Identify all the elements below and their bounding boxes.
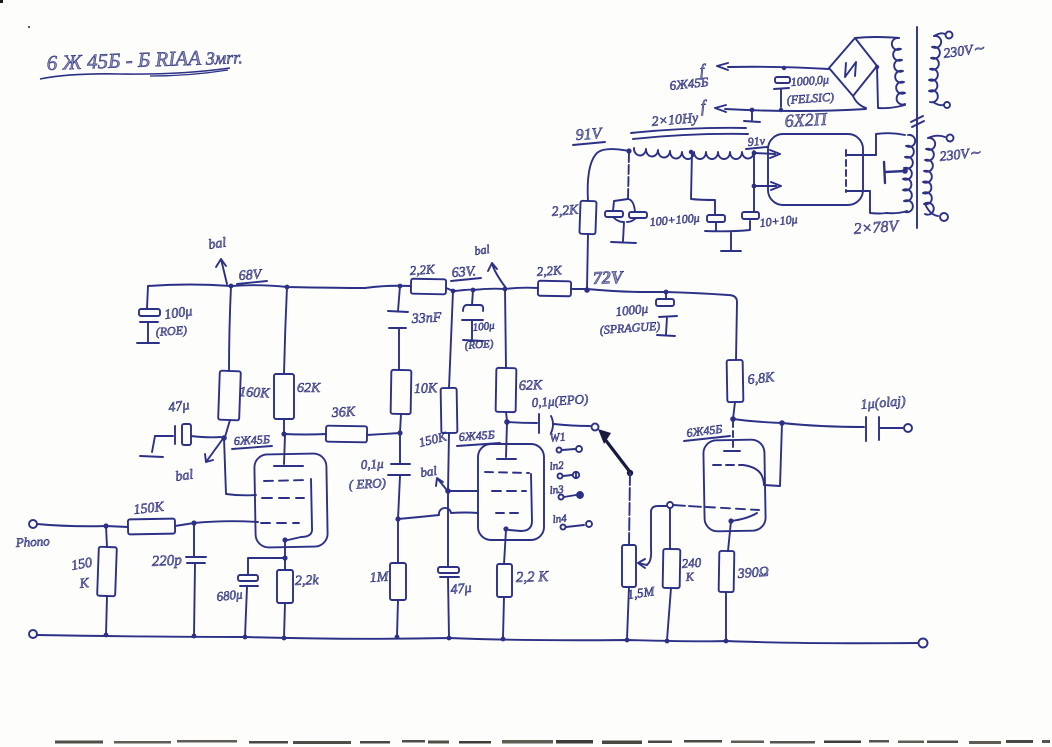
junction dots on top rail [229,284,234,289]
diode inside bridge [845,62,856,77]
svg-text:0,1μ: 0,1μ [360,456,384,472]
svg-text:( ERO): ( ERO) [348,475,386,492]
resistor 2.2K cathode2 [497,564,512,597]
wire 62K to anode2 node [506,412,507,421]
wire bridge right vertex down to winding bottom [877,66,878,107]
svg-text:240: 240 [681,555,702,571]
wire grid node down and into tube [224,438,256,495]
wire vertical feed to 10u cap [753,153,755,212]
svg-text:680μ: 680μ [216,586,244,604]
capacitor 100u ROE second [472,290,473,305]
svg-text:bal: bal [473,242,491,258]
bridge rectifier 6X2P diamond [829,38,877,96]
ground stub on lower f wire [744,111,760,122]
svg-text:47μ: 47μ [450,581,472,598]
wire 150K to ground [106,596,107,635]
wire 3.6K to RIAA node [367,433,400,435]
wire bottom ground rail [37,635,918,643]
svg-text:10K: 10K [414,381,439,397]
wire rail to 62K [284,287,287,374]
svg-text:2,2K: 2,2K [551,203,580,220]
heater winding 2x78V [903,135,915,212]
primary winding bottom 230V [923,138,935,215]
wire 2.2K down to 72V rail [587,234,588,289]
resistor 390R cathode3 [719,551,735,592]
capacitor 1u olaj output [866,417,903,441]
svg-text:2,2k: 2,2k [295,573,320,589]
tube V2 grid1 dash [496,512,524,514]
terminal bottom [933,102,943,105]
wire block to heater winding bottom [870,191,907,214]
capacitor FELSIC lower plate T [774,88,789,107]
tube V1 grid1 dash [261,522,299,524]
tube V1 cathode sleeve [288,479,312,540]
wire grid3 node to tube [673,505,704,507]
HV secondary winding [892,38,905,105]
arrowhead lower f [715,105,726,112]
wire bridge bottom vertex to lower heater wire [853,96,866,108]
svg-text:ln2: ln2 [549,460,565,473]
resistor 2.2k cathode1 [277,570,293,603]
wire lower f line [725,109,866,111]
wire lower tap with arrow into block [754,182,781,190]
wire rail 2.2K to next [446,288,538,291]
choke 2x10Hy core lines [631,128,748,139]
svg-text:220p: 220p [151,552,182,570]
svg-text:91V: 91V [575,125,604,144]
output terminal [904,424,912,432]
svg-text:1M: 1M [369,570,390,586]
arrowhead upper f [717,63,728,70]
resistor 240K [663,549,681,588]
tube V3 plate bar [724,450,740,452]
wire output node down to screen3 [764,423,782,486]
capacitor 10+10u right [742,212,759,219]
svg-text:bal: bal [419,463,438,480]
resistor 150K stage2 [441,388,458,433]
resistor 160K [218,371,241,421]
svg-text:72V: 72V [592,267,625,288]
wire 1.5M to ground [627,587,629,639]
tube V3 screen dash [713,464,743,466]
tube V3 6Zh45B envelope [703,439,766,531]
selector arrow black [604,438,630,472]
tube block internal cathode dashes [845,150,847,192]
tube V1 screen dash [264,480,307,481]
svg-text:2,2K: 2,2K [536,262,563,279]
resistor 1M grid leak [397,519,399,563]
svg-text:390Ω: 390Ω [736,565,769,582]
node 220p tap [191,520,196,525]
wire upper f line from bridge left vertex [728,67,829,69]
resistor 2.2K PSU [579,201,596,235]
wire 150K to bias node [448,433,449,491]
wire wiper bus down [629,473,630,545]
node phono junction [103,523,108,528]
scan corner mark [0,0,3,3]
wire 2.2K to ground [503,597,504,638]
wire grid2 feed to tube2 with hopover [398,508,478,519]
tube V1 6Zh45B envelope [254,453,328,547]
node grid2 feed [395,516,400,521]
resistor 62K anode1 [274,374,294,419]
wire to tube grid [194,521,258,523]
tube V2 cathode node [503,526,508,531]
svg-text:bal: bal [174,468,194,485]
tube V2 screen dash [485,472,529,473]
svg-text:bal: bal [207,236,227,253]
wire cathode node to 680u [248,558,285,575]
junction lower f wire [750,108,755,113]
tube V3 cathode curl [731,513,757,521]
switch wiper terminal [592,424,599,431]
wire block to heater winding top [876,133,905,155]
wire cathode node to 2.2k [284,558,286,570]
node output [779,420,785,426]
junction on upper f wire [782,66,786,70]
node anode1 [281,431,286,436]
wire phono to grid network [37,524,106,526]
node anode2 [504,419,510,425]
capacitor 10000u FELSIC plate box [775,77,790,83]
svg-text:2,2K: 2,2K [409,261,436,278]
core gap marks [911,116,924,127]
choke centre tap wire [691,151,715,215]
tube block internal leads [846,155,876,191]
wire cathode3 down [728,521,731,551]
node bias2 [445,488,451,494]
resistor 150K series grid [128,519,175,535]
wire bridge top vertex to HV winding top [855,37,899,38]
tube V1 cathode node [282,537,287,542]
node 72V [584,287,590,293]
tube V2 plate lead [506,422,507,457]
wire anode3 to output node [733,419,782,423]
wire 390R to ground [725,592,727,641]
svg-text:ln4: ln4 [552,513,568,526]
pot wiper wire to grid node [646,506,666,565]
wire 1M to ground [397,600,398,636]
wire 2.2k to ground rail [284,603,285,638]
potentiometer 1.5M [622,545,636,587]
capacitor 0.1u ERO coupling1 [388,433,410,519]
wire 62K to anode node [283,419,285,433]
svg-text:47μ: 47μ [167,398,190,416]
heater winding centre tap [902,168,908,174]
wire rail right section to corner [587,289,737,360]
wire 91V node down to 2.2K PSU resistor [588,149,629,201]
wire choke out with arrow into block [755,150,780,158]
wire choke node down to caps [628,153,629,199]
wire winding bottom to bridge [878,105,905,108]
svg-text:62K: 62K [519,378,544,394]
svg-text:(ROE): (ROE) [155,323,187,339]
tube V3 screen sleeve to right wall [743,465,764,485]
wire 33nF to 10K [398,329,400,370]
svg-text:6Ж45Б: 6Ж45Б [458,428,495,444]
svg-text:(ROE): (ROE) [464,338,494,352]
choke winding [634,148,754,159]
capacitor 680u [238,575,258,581]
wire 10K to RIAA node [400,414,401,432]
wire rail to 72V node [571,288,587,290]
svg-text:2,2 K: 2,2 K [516,569,550,586]
capacitor 47u plates [155,426,175,444]
svg-text:W1: W1 [549,429,566,445]
wire grid3 node down to 240K [669,508,671,549]
resistor 150K input load vertical [106,526,107,547]
wire anode1 to 3.6K [284,433,326,436]
svg-text:6,8K: 6,8K [747,370,776,388]
scan edge artifact strip [55,741,103,744]
svg-text:160K: 160K [239,385,271,402]
junctions on vertical feed [752,151,757,156]
node anode3 [730,416,736,422]
wire rail to 150K stage2 [449,291,453,388]
bottom rail right terminal [919,639,928,648]
capacitor 1000u SPRAGUE [665,292,667,299]
title underline [40,68,230,79]
phono input terminal [29,520,37,528]
svg-text:Phono: Phono [14,533,50,550]
resistor 2.2K RIAA second [538,281,571,297]
capacitor 100u ROE left [147,286,148,308]
wire rail to 160K [229,286,231,371]
pot wiper arrow [638,559,647,568]
resistor 10K [391,370,412,414]
node RIAA [397,430,402,435]
svg-text:36K: 36K [330,405,356,421]
tube V1 plate lead [284,435,285,464]
svg-text:100μ: 100μ [472,320,496,334]
capacitor 100+100u pair [613,199,635,212]
capacitor 33nF [388,286,408,328]
capacitor 47u input bias left stub [140,436,163,457]
terminal bottom [925,204,938,216]
svg-text:62K: 62K [297,381,321,396]
wire 6.8K to anode3 node [733,402,735,419]
svg-text:1000,0μ: 1000,0μ [790,72,829,89]
svg-text:6X2Π: 6X2Π [784,109,828,131]
transformer core [916,27,918,228]
resistor 2.2K RIAA first [411,279,446,295]
capacitor 220p [186,523,206,636]
tube V2 cathode sleeve [509,474,532,531]
resistor 62K anode2 [496,368,517,412]
wire 240K to ground [667,588,671,640]
wire junction to 150K horizontal [106,526,128,527]
tube V3 cathode node [728,518,733,523]
tube V1 plate bar [274,465,303,467]
junction for SPRAGUE cap [664,290,669,295]
wire 47u to grid node [191,436,221,437]
resistor 3.6K [326,426,367,443]
node cathode1 [282,555,287,560]
capacitor 0.1u EPO coupling2 [507,414,590,433]
terminal top [928,136,945,138]
tube V3 plate lead dashed [732,421,734,449]
tube V2 grid2 dash [492,490,526,492]
capacitor 10+10u left [707,215,725,222]
wire 160K to grid node [225,420,230,437]
wire cathode down [284,540,286,558]
tube V1 grid2 dash [262,497,304,499]
wire cathode2 down [504,530,506,564]
capacitor 47u stage2 [447,491,449,566]
node grid1 bias [221,435,227,441]
bottom rail left terminal [29,630,37,638]
tube V2 6Zh45B envelope [478,444,544,540]
wire bias node to tube2 [448,490,478,492]
junction dots on bottom rail [104,633,109,638]
wire output node to coupling cap [782,423,864,427]
resistor 6.8K anode3 [727,360,744,402]
svg-text:2×78V: 2×78V [853,218,901,238]
wire rail to 62K stage2 [505,289,506,368]
node choke input [626,148,631,153]
node grid3 [667,502,673,508]
rectifier tube block outline [768,134,863,205]
tube V3 grid dash [706,507,759,510]
wire 150K to grid wire [175,523,194,526]
wire top rail left section [148,285,411,289]
terminal top [934,33,945,36]
primary winding top 230V [929,36,941,102]
tube V2 plate bar [497,458,516,460]
svg-text:33nF: 33nF [410,310,442,327]
